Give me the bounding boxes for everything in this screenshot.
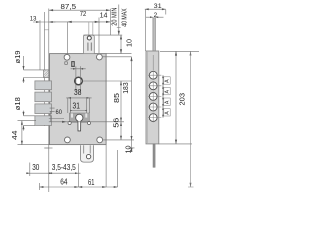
dim 64: [40, 178, 79, 190]
dim 31 keyhole boxed: [70, 99, 86, 114]
top piece slots: [88, 43, 92, 51]
side hole 4: [148, 102, 161, 112]
svg-text:60: 60: [56, 109, 63, 116]
svg-text:ø18: ø18: [15, 97, 22, 110]
dim 72: [53, 11, 100, 54]
svg-text:64: 64: [60, 178, 68, 187]
A label 3: [164, 98, 171, 105]
top piece pin hole: [87, 36, 91, 40]
svg-text:3,5-43,5: 3,5-43,5: [52, 163, 77, 172]
svg-text:85: 85: [114, 93, 121, 103]
dim 10 top right: [120, 35, 133, 54]
dim o18 bolts: [15, 97, 35, 131]
deadbolt 4: [35, 116, 52, 126]
side hole 1: [148, 70, 161, 80]
A label 1: [164, 77, 171, 84]
svg-text:30: 30: [32, 163, 40, 172]
svg-text:183: 183: [123, 82, 130, 94]
faceplate bottom ext: [44, 147, 52, 149]
dim 13 latch throw: [30, 16, 56, 70]
dim 38 keyhole: [66, 88, 91, 113]
latch guide lines to dim: [24, 70, 44, 78]
datum box B label: [65, 62, 74, 67]
spindle 8 dim arrows: [71, 66, 86, 91]
dim 44: [10, 121, 50, 145]
svg-text:40 MAX: 40 MAX: [122, 8, 129, 27]
dim 31 side top: [145, 3, 166, 51]
svg-text:87,5: 87,5: [61, 4, 77, 11]
screw hole bottom-right: [97, 137, 103, 143]
side faceplate strip: [146, 51, 159, 144]
svg-text:38: 38: [74, 88, 81, 97]
cylinder mounting block: [69, 113, 89, 122]
side hole 2: [148, 81, 161, 91]
dim 10 bottom right: [103, 136, 135, 154]
far right overall dim line: [188, 51, 194, 187]
screw hole top-left: [64, 54, 70, 60]
cylinder side screws: [68, 121, 71, 124]
extension lines top dims: [99, 9, 110, 53]
svg-text:203: 203: [179, 93, 186, 106]
screw hole bottom-left: [65, 137, 71, 143]
dim 85 56 right line: [114, 81, 122, 140]
svg-text:44: 44: [10, 131, 19, 141]
dim 3,5-43,5: [49, 163, 81, 187]
svg-text:61: 61: [88, 178, 94, 187]
bottom adjustable foot bracket: [81, 145, 94, 162]
svg-text:A: A: [165, 79, 171, 83]
dim 30 bottom: [26, 163, 52, 177]
faceplate edge lines: [44, 9, 49, 193]
svg-text:13: 13: [30, 16, 37, 23]
A dim line: [162, 75, 164, 117]
dim 61: [78, 145, 117, 188]
top extension rod piece: [83, 35, 94, 54]
handle follower: [75, 77, 83, 85]
dim 20 MIN 40 MAX: [112, 5, 129, 36]
dim o19 latch: [15, 50, 25, 83]
dim 87,5 top: [49, 4, 111, 11]
follower leader line to right dims: [83, 80, 132, 82]
deadbolt 1: [35, 81, 52, 90]
svg-text:A: A: [165, 90, 171, 94]
side bottom rod: [153, 144, 155, 167]
side hole 3: [148, 92, 161, 102]
dim 60 cylinder upright: [49, 108, 124, 123]
svg-text:ø19: ø19: [15, 50, 22, 63]
A label 4: [164, 109, 171, 116]
screw centre extension line: [102, 56, 131, 58]
deadbolt 2: [35, 92, 52, 102]
svg-text:31: 31: [154, 3, 162, 10]
svg-text:10: 10: [126, 39, 133, 47]
body top edge extension: [106, 53, 131, 55]
svg-text:14: 14: [100, 13, 108, 20]
dim 14: [99, 13, 110, 24]
svg-text:20 MIN: 20 MIN: [112, 8, 119, 26]
deadbolt 3: [35, 104, 52, 114]
euro cylinder keyhole: [76, 114, 83, 131]
svg-text:31: 31: [73, 102, 80, 111]
top of extension piece line: [83, 34, 122, 36]
latch bolt hatched: [44, 70, 49, 78]
lock body case: [50, 54, 107, 145]
svg-text:A: A: [165, 100, 171, 104]
dim 2 rod thickness: [146, 12, 164, 19]
side hole 5: [148, 113, 161, 123]
screw hole top-right: [97, 54, 103, 60]
raised-position phantom lines above piece: [89, 22, 93, 35]
svg-text:A: A: [165, 111, 171, 115]
side top rod: [153, 18, 156, 51]
svg-text:56: 56: [114, 118, 121, 128]
side centre line: [152, 55, 154, 70]
svg-text:10: 10: [125, 145, 132, 153]
A label 2: [164, 87, 171, 94]
dim 203: [159, 51, 199, 144]
svg-text:72: 72: [80, 11, 87, 18]
dim 183 line: [123, 57, 133, 152]
